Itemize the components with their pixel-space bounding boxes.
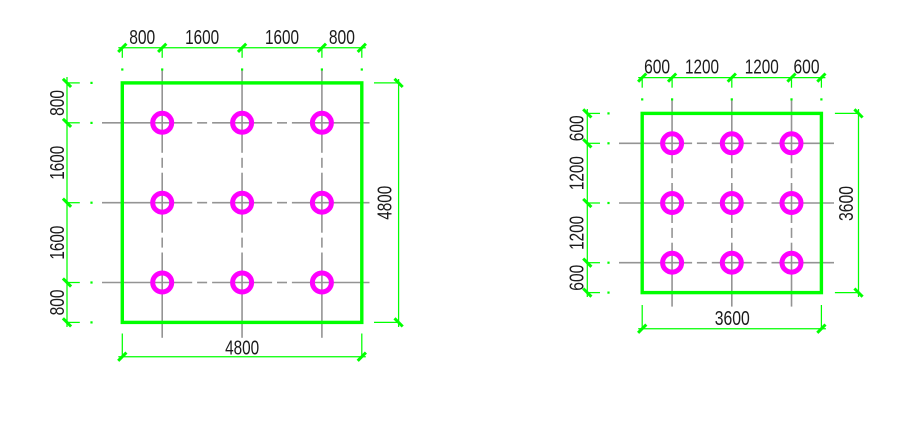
right dimension extension stubs left cap [374, 82, 399, 84]
pile P6 right cap [782, 194, 801, 213]
svg-text:4800: 4800 [374, 186, 397, 220]
svg-text:3600: 3600 [715, 307, 750, 330]
pile P2 right cap [722, 134, 741, 153]
svg-text:800: 800 [329, 26, 355, 49]
centerline axis 2 right cap horizontal [619, 202, 692, 204]
left dimension ticks left cap [63, 79, 71, 87]
centerline axis 1 left cap horizontal [102, 122, 192, 124]
pile P8 right cap [722, 253, 741, 272]
pile P1 right cap [663, 134, 682, 153]
pile P2 left cap [233, 113, 252, 132]
right dimension ticks left cap [395, 79, 403, 87]
svg-text:1200: 1200 [566, 216, 589, 250]
svg-text:800: 800 [129, 26, 155, 49]
left dimension line right cap [586, 109, 588, 297]
svg-text:1600: 1600 [46, 146, 69, 180]
svg-text:600: 600 [566, 265, 589, 291]
centerline axis 1 right cap horizontal [619, 142, 692, 144]
top dimension extension dots right cap [641, 98, 643, 100]
pile P8 left cap [233, 273, 252, 292]
svg-text:1200: 1200 [685, 55, 719, 78]
pile P7 right cap [663, 253, 682, 272]
centerline axis A right cap vertical [671, 101, 673, 164]
pile cap outline 4800x4800 [122, 83, 361, 323]
bottom dimension ticks left cap [118, 353, 126, 361]
svg-text:4800: 4800 [225, 336, 259, 359]
svg-text:600: 600 [644, 55, 670, 78]
top dimension ticks right cap [638, 74, 646, 82]
top dimension line left cap [118, 47, 365, 49]
right dimension extension stubs right cap [835, 112, 859, 114]
centerline axis 3 right cap horizontal [619, 262, 692, 264]
svg-text:1600: 1600 [185, 26, 219, 49]
pile P4 left cap [153, 193, 172, 212]
top dimension extension dots left cap [121, 68, 123, 70]
top dimension extension stubs left cap [121, 48, 123, 58]
pile P7 left cap [153, 273, 172, 292]
pile P3 left cap [312, 113, 331, 132]
svg-text:3600: 3600 [835, 186, 858, 221]
bottom dimension extension stubs right cap [641, 305, 643, 329]
left dimension extension stubs right cap [587, 112, 600, 114]
bottom dimension extension stubs left cap [121, 334, 123, 357]
top dimension line right cap [638, 77, 825, 79]
svg-text:800: 800 [46, 289, 69, 315]
pile P9 right cap [782, 253, 801, 272]
pile P6 left cap [312, 193, 331, 212]
right dimension ticks right cap [854, 109, 862, 117]
svg-text:1600: 1600 [265, 26, 299, 49]
svg-text:600: 600 [794, 55, 820, 78]
svg-text:1200: 1200 [566, 156, 589, 190]
bottom dimension line left cap [118, 356, 365, 358]
top dimension ticks left cap [118, 44, 126, 52]
pile P9 left cap [312, 273, 331, 292]
svg-text:1600: 1600 [46, 226, 69, 260]
pile P3 right cap [782, 134, 801, 153]
centerline axis C left cap vertical [321, 71, 323, 153]
svg-text:1200: 1200 [745, 55, 779, 78]
top dimension extension stubs right cap [641, 78, 643, 88]
bottom dimension line right cap [638, 328, 826, 330]
left dimension extension stubs left cap [67, 82, 80, 84]
centerline axis C right cap vertical [791, 101, 793, 164]
left dimension line left cap [66, 77, 68, 327]
pile P4 right cap [663, 194, 682, 213]
svg-text:600: 600 [566, 115, 589, 141]
right dimension line right cap [858, 109, 860, 297]
centerline axis B left cap vertical [241, 71, 243, 153]
centerline axis B right cap vertical [731, 101, 733, 164]
pile P1 left cap [153, 113, 172, 132]
right dimension line left cap [398, 79, 400, 327]
left dimension ticks right cap [583, 109, 591, 117]
left dimension extension dots right cap [607, 112, 609, 114]
bottom dimension ticks right cap [638, 325, 646, 333]
pile P5 left cap [233, 193, 252, 212]
centerline axis A left cap vertical [161, 71, 163, 153]
centerline axis 2 left cap horizontal [102, 202, 192, 204]
pile P5 right cap [722, 194, 741, 213]
left dimension extension dots left cap [90, 82, 92, 84]
pile cap outline 3600x3600 [642, 113, 821, 292]
centerline axis 3 left cap horizontal [102, 282, 192, 284]
svg-text:800: 800 [46, 90, 69, 116]
